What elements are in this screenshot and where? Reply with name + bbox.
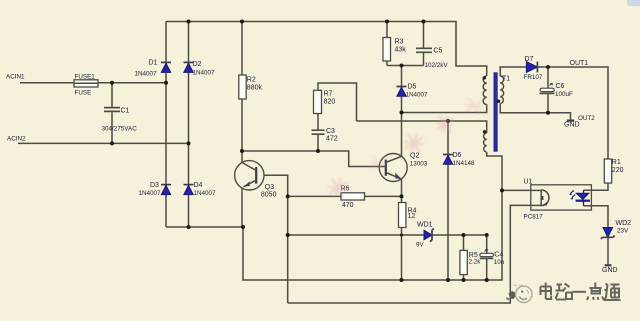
junction R2 column top rail xyxy=(240,20,244,24)
svg-text:1N4007: 1N4007 xyxy=(135,71,158,78)
svg-text:Q2: Q2 xyxy=(410,153,419,160)
wire WD1 protection line xyxy=(288,234,487,236)
svg-text:Q3: Q3 xyxy=(265,184,274,191)
capacitor C6 xyxy=(540,83,574,98)
wire top positive rail with primary top lead xyxy=(166,22,487,77)
svg-text:2.2k: 2.2k xyxy=(469,259,482,266)
wire D2 D4 bridge column xyxy=(188,22,190,228)
wire ACIN2 input line xyxy=(18,142,189,144)
junction U1 collector aux return xyxy=(500,188,504,192)
svg-text:820: 820 xyxy=(324,98,336,105)
svg-text:D7: D7 xyxy=(525,56,534,63)
watermark logo circle xyxy=(513,285,532,302)
resistor R4 xyxy=(399,203,417,228)
svg-text:100uF: 100uF xyxy=(555,91,573,98)
svg-text:ACIN1: ACIN1 xyxy=(6,73,25,80)
wire aux feedback line to transformer xyxy=(357,121,487,133)
junction Q2 emitter R6 R4 xyxy=(400,194,404,198)
wire primary bottom lead xyxy=(402,105,487,113)
wire snubber bottom link xyxy=(387,65,424,67)
diode D4 xyxy=(184,182,217,197)
junction R3 top rail xyxy=(385,20,389,24)
junction D2 column top rail xyxy=(187,20,191,24)
wire ground return rail with aux bottom lead xyxy=(243,152,502,280)
wire Q2 emitter to R4 column xyxy=(401,179,403,281)
wire Q3 base column xyxy=(264,175,288,303)
diode D3 xyxy=(139,182,172,197)
svg-text:C1: C1 xyxy=(121,108,130,115)
junction R4 ground rail xyxy=(400,278,404,282)
capacitor C4 xyxy=(480,249,505,265)
svg-text:GND: GND xyxy=(564,122,580,129)
svg-text:220: 220 xyxy=(612,167,624,174)
wire C6 column xyxy=(547,67,549,113)
svg-text:R1: R1 xyxy=(612,159,621,166)
svg-text:WD2: WD2 xyxy=(616,220,632,227)
svg-text:1N4007: 1N4007 xyxy=(406,91,429,98)
svg-text:470: 470 xyxy=(342,202,354,209)
svg-text:GND: GND xyxy=(602,267,618,274)
junction D6 ground rail xyxy=(446,278,450,282)
junction C6 OUT1 xyxy=(546,65,550,69)
svg-text:880k: 880k xyxy=(247,84,263,91)
svg-text:23V: 23V xyxy=(617,228,629,235)
diode D6 xyxy=(443,152,475,167)
wire D5 to Q2 collector column xyxy=(401,66,403,157)
zener WD1 xyxy=(416,222,434,249)
transistor Q3 xyxy=(235,151,277,227)
transformer T1 secondary polarity dot xyxy=(497,100,500,103)
resistor R2 xyxy=(239,75,263,99)
diode D5 xyxy=(397,84,429,99)
svg-text:D4: D4 xyxy=(194,182,203,189)
svg-text:9V: 9V xyxy=(416,242,425,249)
wire ACIN1 input line xyxy=(20,82,166,84)
wire R3 snubber column xyxy=(386,22,388,66)
svg-text:WD1: WD1 xyxy=(417,222,433,229)
transformer T1 primary winding xyxy=(483,76,487,105)
fuse FUSE1 xyxy=(74,74,98,97)
svg-text:1N4007: 1N4007 xyxy=(139,190,162,197)
svg-text:C4: C4 xyxy=(494,252,503,259)
transformer T1 aux winding xyxy=(484,133,487,152)
wire base drive line to Q2 xyxy=(242,151,379,167)
capacitor C5 xyxy=(416,48,448,69)
junction D4 bottom rail xyxy=(187,225,191,229)
svg-text:1N4007: 1N4007 xyxy=(194,190,217,197)
svg-text:PC817: PC817 xyxy=(524,214,544,221)
resistor R6 xyxy=(341,185,365,209)
svg-text:C6: C6 xyxy=(556,83,565,90)
svg-text:T1: T1 xyxy=(502,76,510,83)
junction R4 WD1 line xyxy=(400,234,403,237)
svg-text:472: 472 xyxy=(326,136,338,143)
diode D7 xyxy=(524,56,543,81)
watermark pointer icon xyxy=(506,291,516,301)
svg-text:8050: 8050 xyxy=(261,191,277,198)
junction R2 Q3 collector xyxy=(240,149,244,153)
wire R2 startup column xyxy=(241,22,243,152)
svg-text:D5: D5 xyxy=(408,84,417,91)
transistor Q2 xyxy=(379,153,428,182)
svg-text:FUSE1: FUSE1 xyxy=(75,74,96,81)
svg-text:R3: R3 xyxy=(395,39,404,46)
wire R1 bottom to opto LED pin xyxy=(584,183,609,190)
diode D2 xyxy=(184,61,216,76)
junction C4 top xyxy=(485,233,489,237)
transformer T1 primary polarity dot xyxy=(483,76,486,79)
junction R6 left xyxy=(286,194,290,198)
junction D5 snubber xyxy=(400,64,404,68)
transformer T1 secondary winding xyxy=(500,76,503,103)
junction bottom rail corner xyxy=(241,225,245,229)
resistor R3 xyxy=(383,38,406,62)
svg-text:ACIN2: ACIN2 xyxy=(7,136,26,143)
svg-text:C5: C5 xyxy=(434,48,443,55)
junction C4 ground rail xyxy=(485,278,489,282)
junction fuse C1 xyxy=(110,81,114,85)
wire secondary bottom OUT2 line xyxy=(500,104,570,121)
wire C4 column xyxy=(486,235,488,280)
wire OUT1 line to R1 xyxy=(538,67,608,159)
svg-text:OUT1: OUT1 xyxy=(570,60,589,67)
transformer T1 core xyxy=(494,72,498,151)
svg-text:1N4007: 1N4007 xyxy=(193,69,216,76)
resistor R5 xyxy=(460,250,481,274)
svg-text:102/2kV: 102/2kV xyxy=(425,62,449,69)
junction D5 primary bottom xyxy=(400,111,404,115)
svg-text:C3: C3 xyxy=(326,128,335,135)
wire C3 R7 feedback branch xyxy=(318,83,357,151)
capacitor C3 xyxy=(312,128,338,143)
junction R5 ground rail xyxy=(462,278,466,282)
wire U1 emitter return line xyxy=(288,205,531,303)
wire R6 line xyxy=(288,195,402,197)
wire D1 D3 bridge column xyxy=(165,22,167,228)
svg-text:R2: R2 xyxy=(247,77,256,84)
ground symbol OUT2 xyxy=(564,121,580,129)
junction D6 aux line xyxy=(446,119,450,123)
svg-text:43k: 43k xyxy=(395,47,407,54)
junction C6 OUT2 xyxy=(546,111,550,115)
capacitor C1 xyxy=(102,108,138,133)
wire C1 column xyxy=(111,83,113,144)
svg-text:D3: D3 xyxy=(150,182,159,189)
wire secondary top lead to D7 xyxy=(500,67,526,76)
wire bottom negative rail xyxy=(166,226,243,228)
junction ACIN2 bridge xyxy=(187,141,191,145)
junction C1 ACIN2 xyxy=(110,141,114,145)
junction C5 top rail xyxy=(422,20,426,24)
zener WD2 xyxy=(601,220,631,239)
ground symbol WD2 xyxy=(602,265,618,274)
svg-text:304/275VAC: 304/275VAC xyxy=(102,126,138,133)
wire opto LED cathode to WD2 xyxy=(584,206,609,228)
optocoupler U1 xyxy=(524,179,592,221)
resistor R1 xyxy=(604,159,623,183)
wire D6 clamp column xyxy=(447,121,449,280)
junction C3 base line xyxy=(316,149,320,153)
svg-text:1N4148: 1N4148 xyxy=(453,160,476,167)
wire U1 collector pin xyxy=(502,189,531,191)
resistor R7 xyxy=(314,90,336,113)
junction ACIN1 bridge xyxy=(164,81,168,85)
svg-text:OUT2: OUT2 xyxy=(578,115,595,122)
junction WD1 line left xyxy=(286,233,290,237)
svg-text:U1: U1 xyxy=(524,179,533,186)
svg-text:D6: D6 xyxy=(453,152,462,159)
wire WD2 to GND xyxy=(607,237,609,264)
svg-text:10n: 10n xyxy=(494,259,505,266)
watermark text dianlu yidiantong xyxy=(541,283,621,301)
svg-text:FUSE: FUSE xyxy=(75,89,92,96)
transformer T1 aux polarity dot xyxy=(483,130,486,133)
svg-text:13003: 13003 xyxy=(410,161,428,168)
junction R5 top xyxy=(462,233,466,237)
svg-text:FR107: FR107 xyxy=(524,74,543,81)
wire C5 column xyxy=(423,22,425,66)
svg-text:D1: D1 xyxy=(149,60,158,67)
svg-text:R7: R7 xyxy=(324,91,333,98)
diode D1 xyxy=(135,60,172,78)
top right corner blob xyxy=(627,0,640,6)
svg-text:12: 12 xyxy=(408,213,416,220)
wire R5 column xyxy=(463,235,465,280)
svg-text:D2: D2 xyxy=(193,61,202,68)
